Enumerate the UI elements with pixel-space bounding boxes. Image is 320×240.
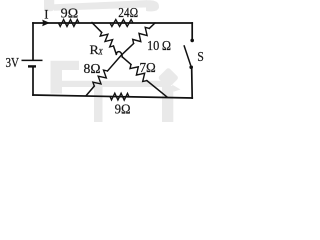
wire bottom [33,95,192,98]
svg-text:7Ω: 7Ω [140,61,156,76]
svg-text:3V: 3V [6,55,20,70]
watermark left L-shape [51,61,80,94]
wire right lower [191,69,194,98]
resistor Rx [100,32,113,47]
watermark horizontal band [51,81,168,87]
watermark top bar [44,0,54,11]
switch S terminal lower dot [189,65,193,69]
wire hop to 7ohm [122,57,131,65]
wire left lower [32,67,34,95]
wire 7ohm to node E [147,81,167,97]
wire node C to 10ohm [149,23,155,28]
svg-text:X: X [98,46,104,56]
wire Rx to hop [114,46,117,54]
battery B1 plate short [28,65,36,67]
wire 8ohm to node D [87,86,95,95]
watermark center bar [94,81,103,122]
svg-text:9Ω: 9Ω [115,103,131,118]
svg-text:10 Ω: 10 Ω [147,39,171,54]
resistor 9ohm top [59,20,80,27]
wire left upper [32,23,34,60]
current arrow I [42,20,50,27]
wire right upper [191,23,193,38]
wire top [33,22,192,24]
resistor 24ohm [110,20,133,27]
watermark diamond [158,67,179,88]
wire 10ohm to crossing [108,44,134,72]
resistor 8ohm [93,70,108,86]
svg-text:8Ω: 8Ω [84,62,101,77]
svg-text:9Ω: 9Ω [61,7,78,22]
svg-text:24Ω: 24Ω [118,6,138,21]
wire crossover hop [116,52,122,57]
watermark right bar [162,86,173,122]
resistor 9ohm bottom [110,93,129,100]
svg-text:S: S [197,50,204,65]
resistor 10ohm [133,27,150,43]
battery B1 plate long [22,59,43,61]
wire node A to Rx [92,23,102,33]
switch S terminal upper dot [190,39,194,43]
svg-text:I: I [44,8,48,22]
switch S blade [184,46,190,65]
resistor 7ohm [130,65,147,82]
